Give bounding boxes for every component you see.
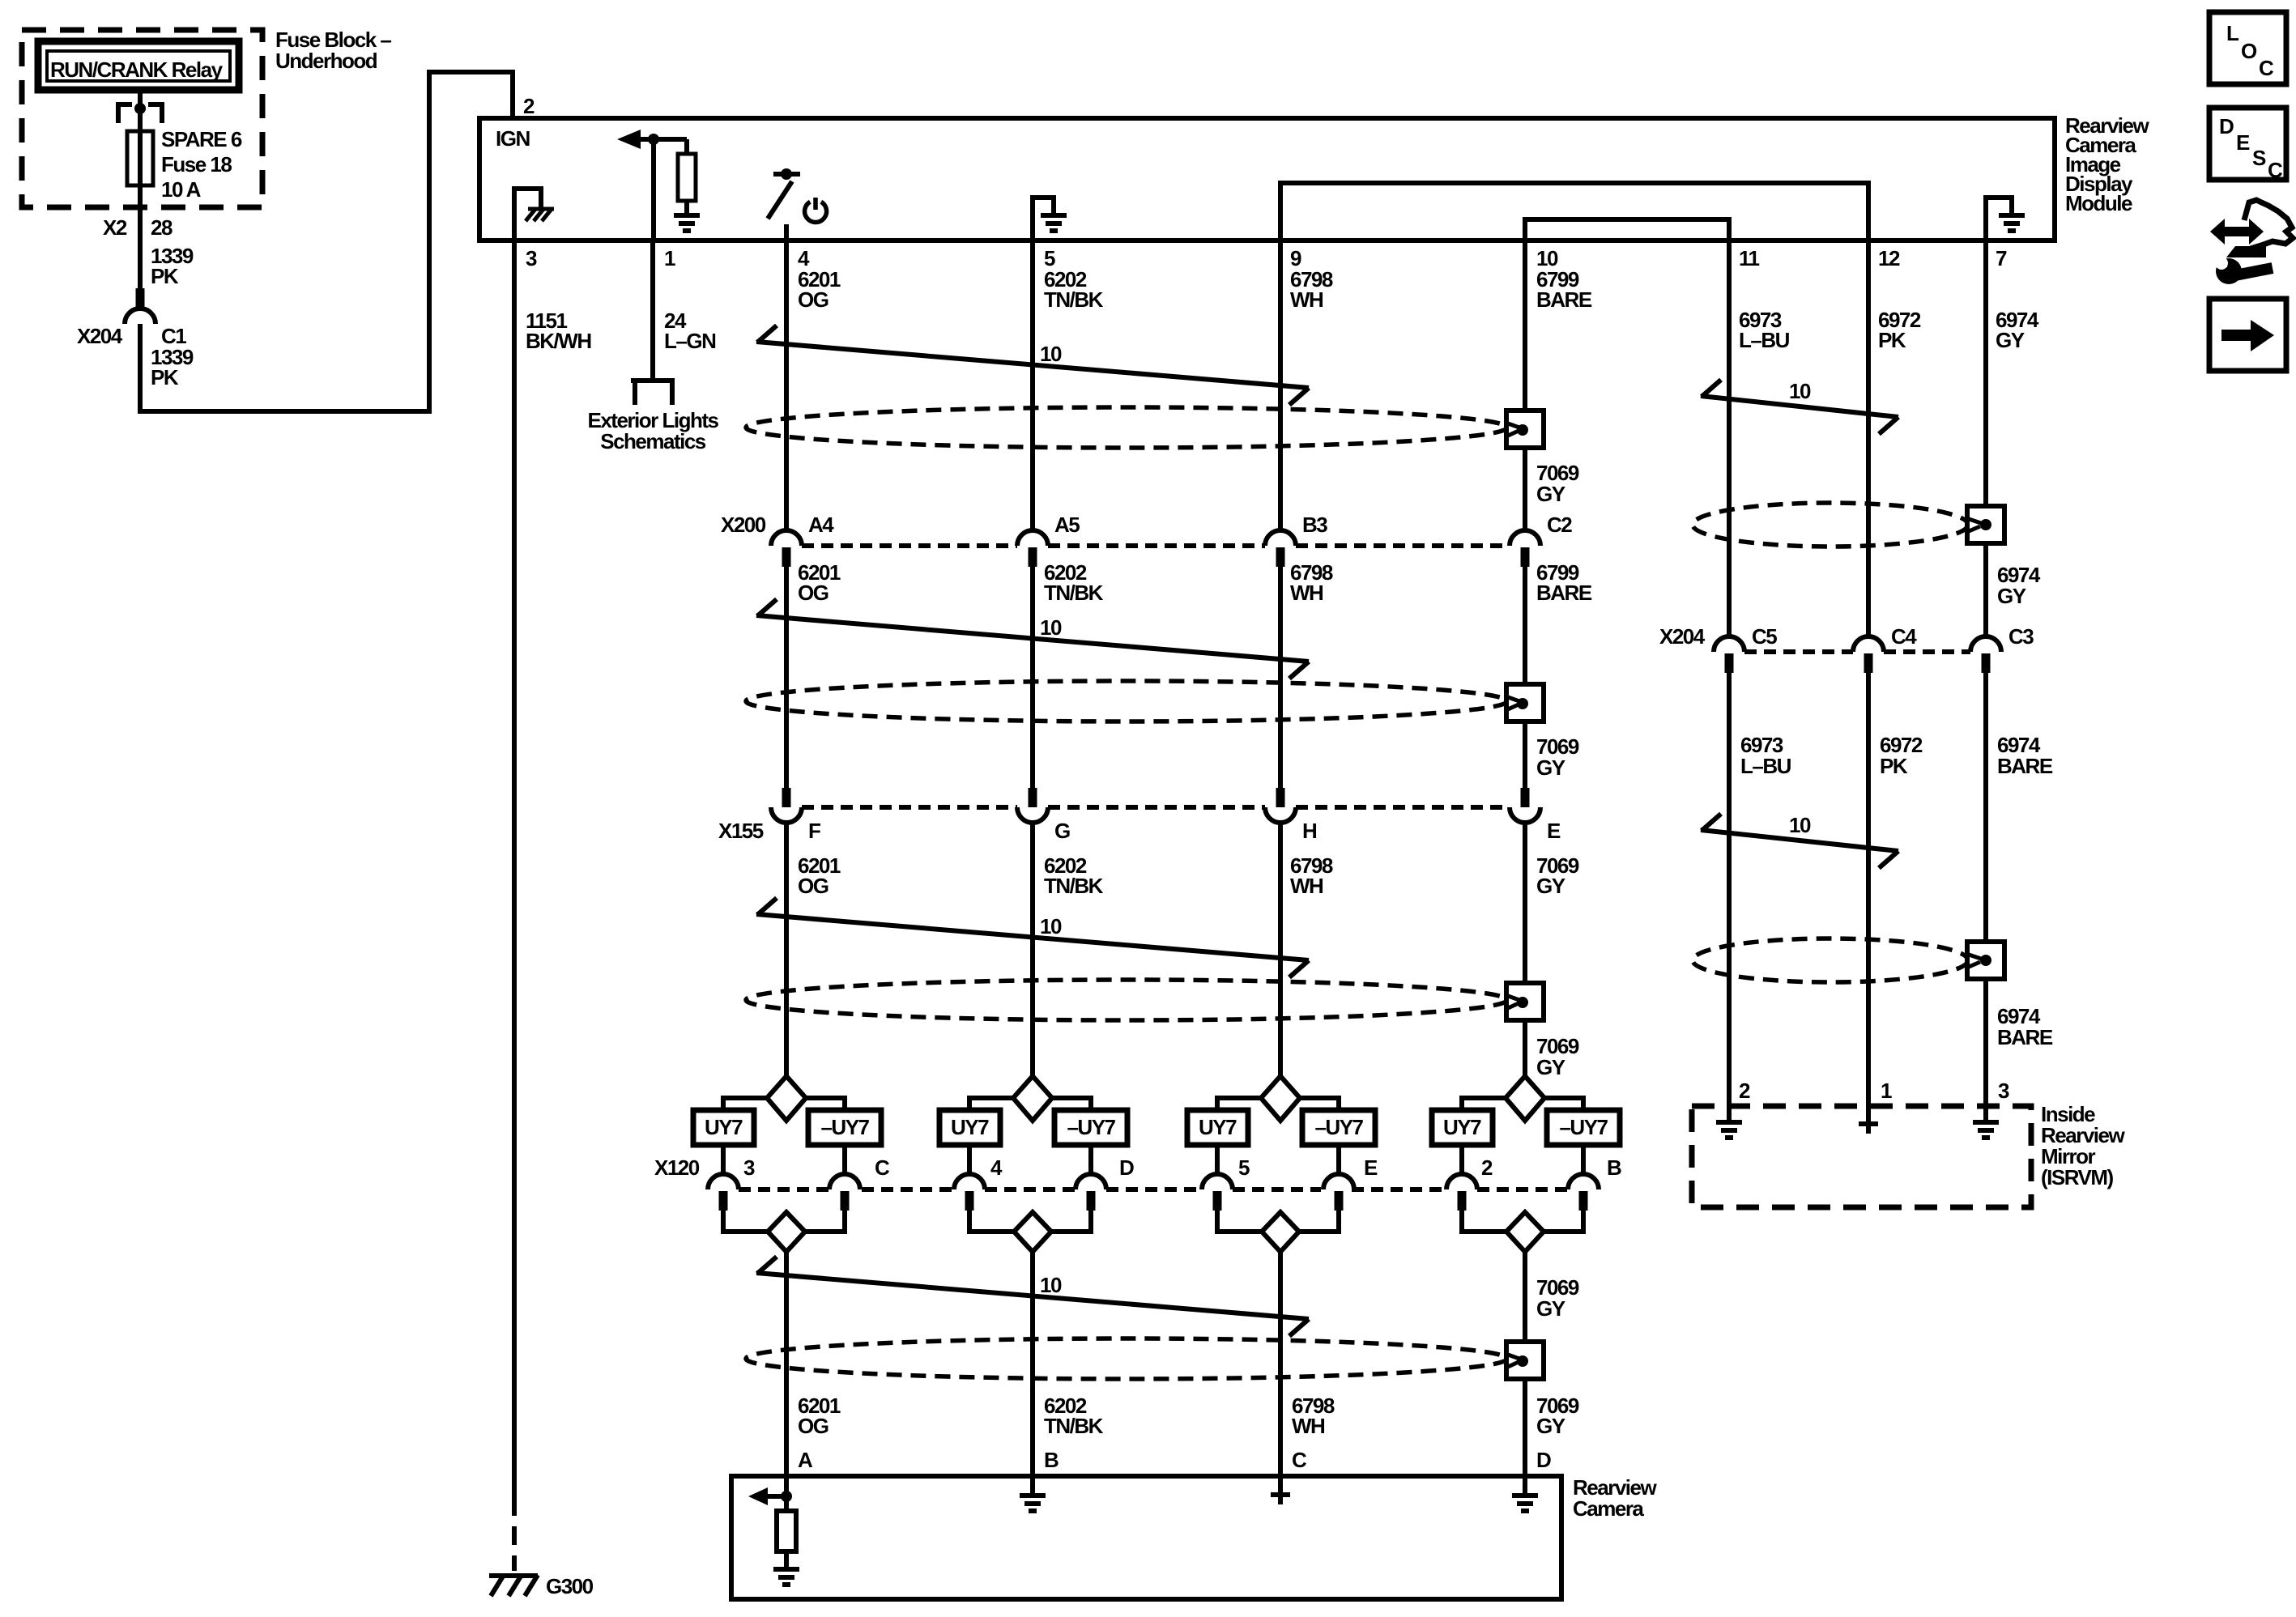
svg-text:GY: GY: [1536, 1055, 1565, 1079]
shield arrow 10 group 1: [756, 342, 1309, 388]
node fuse top junction: [134, 103, 146, 114]
shield splice right on 6974: [1967, 942, 2004, 979]
svg-text:–UY7: –UY7: [820, 1115, 869, 1139]
fuse F18 clip bracket: [118, 104, 132, 123]
fuse block UY7 tag: [1432, 1110, 1493, 1145]
svg-text:A5: A5: [1054, 513, 1080, 537]
svg-text:UY7: UY7: [1443, 1115, 1481, 1139]
fuse block -UY7 tag: [1302, 1110, 1375, 1145]
cable ellipse right: [1693, 503, 1968, 547]
svg-text:OG: OG: [798, 581, 829, 605]
svg-text:2: 2: [523, 94, 535, 118]
wire UY7 to X120: [967, 1145, 972, 1175]
wire UY7 to X120: [721, 1145, 726, 1175]
svg-text:L–BU: L–BU: [1740, 754, 1791, 778]
svg-text:L: L: [2226, 21, 2239, 45]
cable ellipse group 2: [746, 681, 1507, 721]
svg-text:E: E: [1547, 819, 1561, 843]
wire 24 L-GN pin 1 to exterior lights: [650, 240, 655, 381]
internal chassis ground at pin 3: [514, 189, 541, 240]
svg-text:PK: PK: [1878, 328, 1906, 352]
cable ellipse group 4: [746, 1338, 1507, 1379]
svg-text:BARE: BARE: [1536, 581, 1592, 605]
svg-text:GY: GY: [1536, 874, 1565, 898]
wire 6202 TN/BK vertical: [1030, 240, 1035, 531]
svg-text:H: H: [1302, 819, 1317, 843]
svg-text:10: 10: [1040, 1273, 1062, 1297]
wire 6799/7069 shield drain vertical: [1523, 240, 1527, 411]
svg-text:Module: Module: [2065, 191, 2132, 215]
svg-text:X155: X155: [718, 819, 764, 843]
svg-text:2: 2: [1481, 1155, 1493, 1180]
internal signal arrow and junction at pin 1: [617, 130, 641, 149]
svg-text:Schematics: Schematics: [600, 429, 706, 453]
svg-text:11: 11: [1739, 246, 1760, 270]
wire diamond to -UY7: [806, 1098, 845, 1110]
ISRVM internal ground pin 3: [1973, 1120, 1999, 1125]
svg-text:10: 10: [1789, 379, 1811, 403]
connector X155 terminal E: [1521, 788, 1530, 807]
internal resistor at pin 1: [684, 139, 689, 154]
connector X200 terminal C2: [1510, 530, 1540, 546]
icon jump double arrow: [2210, 219, 2264, 245]
wire X120 to merge diamond: [969, 1211, 1014, 1232]
merge diamond below X120: [1262, 1212, 1299, 1252]
svg-text:PK: PK: [1880, 754, 1908, 778]
svg-text:IGN: IGN: [496, 126, 530, 151]
svg-text:BARE: BARE: [1997, 754, 2053, 778]
splice S3 on drain wire: [1506, 983, 1544, 1020]
fuse block UY7 tag: [1187, 1110, 1248, 1145]
connector X155 terminal H: [1276, 788, 1285, 807]
svg-text:C4: C4: [1891, 624, 1917, 649]
svg-text:WH: WH: [1290, 874, 1323, 898]
svg-text:2: 2: [1739, 1079, 1750, 1103]
svg-text:GY: GY: [1997, 584, 2026, 608]
icon wrench: [2216, 258, 2242, 284]
fuse block -UY7 tag: [1547, 1110, 1620, 1145]
connector X120 terminal 3: [708, 1174, 739, 1189]
svg-text:B3: B3: [1302, 513, 1327, 537]
svg-text:E: E: [2236, 130, 2250, 155]
icon jump state outline: [2244, 200, 2293, 249]
svg-text:D: D: [1119, 1155, 1134, 1180]
camera internal resistor: [777, 1511, 796, 1551]
connector X120 terminal B: [1568, 1174, 1599, 1189]
wire 6201 OG vertical: [784, 240, 789, 531]
wire UY7 to X120: [1459, 1145, 1464, 1175]
svg-text:X200: X200: [721, 513, 766, 537]
svg-text:1: 1: [664, 246, 675, 270]
wire X120 to merge diamond: [1217, 1211, 1262, 1232]
fuse block -UY7 tag: [1054, 1110, 1127, 1145]
internal ground below resistor: [674, 213, 700, 218]
svg-text:X204: X204: [1659, 624, 1706, 649]
svg-text:4: 4: [990, 1155, 1003, 1180]
merge diamond below X120: [768, 1212, 805, 1252]
svg-text:G: G: [1054, 819, 1070, 843]
svg-text:3: 3: [1998, 1079, 2009, 1103]
svg-text:1: 1: [1881, 1079, 1892, 1103]
module: Rearview Camera box: [731, 1476, 1561, 1599]
svg-text:X2: X2: [103, 215, 127, 240]
module: Rearview Camera Image Display Module: [479, 118, 2055, 240]
connector X204 terminal C3: [1970, 636, 2001, 652]
svg-text:GY: GY: [1536, 755, 1565, 780]
svg-text:TN/BK: TN/BK: [1044, 1414, 1104, 1438]
camera internal ground below resistor: [773, 1567, 799, 1572]
svg-text:GY: GY: [1536, 1414, 1565, 1438]
wire fuse vertical: [138, 90, 143, 288]
shield arrow 10 group 2: [756, 615, 1309, 662]
internal wire pin 10 to pin 11: [1525, 219, 1729, 240]
connector X120 terminal 2: [1446, 1174, 1477, 1189]
relay RUN/CRANK Relay: [38, 41, 239, 90]
splice pack diamond above X120 at wire x=1275: [1013, 1076, 1052, 1121]
svg-text:E: E: [1364, 1155, 1378, 1180]
fuse block -UY7 tag: [808, 1110, 881, 1145]
svg-text:D: D: [2219, 114, 2234, 138]
svg-text:OG: OG: [798, 874, 829, 898]
svg-text:X120: X120: [654, 1155, 700, 1180]
camera internal supply + at pin C: [1278, 1476, 1283, 1504]
splice pack diamond above X120 at wire x=1581: [1261, 1076, 1300, 1121]
splice S1 on drain wire: [1506, 411, 1544, 448]
merge diamond below X120: [1506, 1212, 1544, 1252]
svg-text:12: 12: [1878, 246, 1900, 270]
ground G300: [489, 1573, 538, 1578]
internal ground at pin 5: [1033, 198, 1054, 240]
svg-text:10: 10: [1040, 615, 1062, 640]
wire 1151 BK/WH pin 3 down to G300: [512, 240, 517, 1497]
svg-text:7: 7: [1996, 246, 2007, 270]
internal power symbol: [805, 202, 827, 222]
wire 6798 WH vertical: [1278, 240, 1283, 531]
connector X200 terminal A4: [771, 530, 802, 546]
fuse block underhood dashed enclosure: [22, 30, 262, 207]
svg-text:O: O: [2241, 39, 2257, 63]
merge diamond below X120: [1014, 1212, 1051, 1252]
wire diamond to UY7: [969, 1098, 1013, 1110]
connector X120 terminal E: [1323, 1174, 1354, 1189]
wire 6974 GY/BARE vertical: [1983, 240, 1988, 506]
wire 6972 PK vertical: [1866, 240, 1871, 636]
svg-text:BK/WH: BK/WH: [526, 329, 591, 353]
connector X120 terminal 4: [954, 1174, 985, 1189]
svg-text:GY: GY: [1536, 482, 1565, 506]
svg-text:SPARE 6: SPARE 6: [161, 127, 242, 151]
svg-text:OG: OG: [798, 287, 829, 312]
svg-text:Underhood: Underhood: [275, 49, 377, 73]
connector X120 terminal 5: [1202, 1174, 1233, 1189]
svg-text:D: D: [1536, 1448, 1551, 1472]
svg-text:BARE: BARE: [1997, 1025, 2053, 1049]
svg-text:X204: X204: [77, 324, 123, 348]
wire 6973 L-BU vertical: [1727, 240, 1732, 636]
svg-text:(ISRVM): (ISRVM): [2041, 1165, 2114, 1189]
shield arrow 10 right group 1: [1701, 396, 1898, 417]
svg-text:PK: PK: [151, 365, 179, 389]
wire X120 to merge diamond: [1462, 1211, 1506, 1232]
svg-text:GY: GY: [1536, 1296, 1565, 1321]
svg-text:UY7: UY7: [705, 1115, 743, 1139]
svg-text:C: C: [1292, 1448, 1307, 1472]
svg-text:10: 10: [1789, 813, 1811, 837]
fuse block UY7 tag: [693, 1110, 754, 1145]
connector X155 terminal F: [782, 788, 791, 807]
connector X204 C1 socket: [125, 309, 155, 324]
wire C1 to module pin 2: [140, 72, 513, 411]
camera internal ground at pin B: [1030, 1476, 1035, 1494]
shield arrow 10 group 3: [756, 914, 1309, 960]
cable ellipse group 3: [746, 980, 1507, 1020]
svg-text:GY: GY: [1996, 328, 2025, 352]
splice S2 on drain wire: [1506, 684, 1544, 721]
splice pack diamond above X120 at wire x=1883: [1506, 1076, 1544, 1121]
svg-text:L–GN: L–GN: [664, 329, 716, 353]
svg-text:S: S: [2252, 146, 2266, 170]
svg-text:G300: G300: [546, 1574, 594, 1598]
svg-text:–UY7: –UY7: [1314, 1115, 1363, 1139]
internal switch at pin 4: [773, 172, 800, 177]
wire diamond to UY7: [723, 1098, 767, 1110]
svg-text:–UY7: –UY7: [1067, 1115, 1115, 1139]
connector X155 terminal G: [1029, 788, 1037, 807]
cable ellipse right: [1693, 938, 1968, 982]
connector X200 terminal A5: [1017, 530, 1048, 546]
svg-text:Camera: Camera: [1573, 1496, 1644, 1521]
fuse block UY7 tag: [939, 1110, 1000, 1145]
svg-text:C2: C2: [1547, 513, 1572, 537]
svg-text:WH: WH: [1290, 287, 1323, 312]
shield splice right on 6974: [1967, 506, 2004, 543]
camera internal ground at pin D: [1523, 1476, 1527, 1494]
icon DESC box: [2209, 108, 2286, 180]
wire UY7 to X120: [1215, 1145, 1220, 1175]
wire diamond to UY7: [1217, 1098, 1261, 1110]
svg-text:5: 5: [1238, 1155, 1250, 1180]
svg-text:WH: WH: [1292, 1414, 1325, 1438]
svg-text:10: 10: [1040, 914, 1062, 938]
splice pack diamond above X120 at wire x=971: [767, 1076, 806, 1121]
svg-text:C3: C3: [2008, 624, 2034, 649]
svg-text:OG: OG: [798, 1414, 829, 1438]
svg-text:C: C: [875, 1155, 890, 1180]
connector X200 terminal B3: [1265, 530, 1296, 546]
wire diamond to -UY7: [1544, 1098, 1583, 1110]
internal wire pin 9 to pin 12: [1280, 183, 1868, 240]
svg-text:C5: C5: [1752, 624, 1777, 649]
ISRVM internal supply + pin 1: [1866, 1114, 1871, 1134]
svg-text:TN/BK: TN/BK: [1044, 287, 1104, 312]
svg-text:PK: PK: [151, 264, 179, 288]
svg-text:3: 3: [526, 246, 537, 270]
cable ellipse group 1: [746, 407, 1507, 448]
ISRVM internal ground pin 2: [1716, 1120, 1742, 1125]
svg-text:TN/BK: TN/BK: [1044, 874, 1104, 898]
svg-text:C: C: [2259, 56, 2274, 80]
svg-text:UY7: UY7: [951, 1115, 989, 1139]
svg-text:–UY7: –UY7: [1559, 1115, 1608, 1139]
off-page bracket Exterior Lights: [631, 378, 675, 383]
svg-text:10 A: 10 A: [161, 177, 202, 202]
svg-text:F: F: [808, 819, 820, 843]
svg-text:BARE: BARE: [1536, 287, 1592, 312]
svg-text:WH: WH: [1290, 581, 1323, 605]
svg-text:28: 28: [151, 215, 173, 240]
svg-text:A: A: [798, 1448, 813, 1472]
wire X120 to merge diamond: [723, 1211, 768, 1232]
wire diamond to -UY7: [1052, 1098, 1091, 1110]
svg-text:UY7: UY7: [1199, 1115, 1237, 1139]
svg-text:Fuse 18: Fuse 18: [161, 152, 232, 177]
connector X120 terminal D: [1076, 1174, 1106, 1189]
module: Inside Rearview Mirror ISRVM dashed box: [1692, 1106, 2031, 1207]
svg-text:10: 10: [1040, 342, 1062, 366]
svg-text:B: B: [1044, 1448, 1059, 1472]
connector X204 C1 pin: [136, 288, 145, 309]
svg-text:C: C: [2268, 158, 2283, 182]
connector X120 terminal C: [829, 1174, 860, 1189]
wire diamond to UY7: [1462, 1098, 1506, 1110]
svg-text:3: 3: [743, 1155, 755, 1180]
svg-text:TN/BK: TN/BK: [1044, 581, 1104, 605]
icon forward arrow box: [2209, 299, 2286, 371]
shield arrow 10 group 4: [756, 1273, 1309, 1319]
connector X204 terminal C4: [1853, 636, 1884, 652]
svg-text:B: B: [1607, 1155, 1621, 1180]
wire diamond to -UY7: [1300, 1098, 1339, 1110]
splice S4 on drain wire: [1506, 1342, 1544, 1379]
shield arrow 10 right group 2: [1701, 830, 1898, 851]
svg-text:A4: A4: [808, 513, 834, 537]
internal ground at pin 7: [1986, 198, 2012, 240]
svg-text:RUN/CRANK Relay: RUN/CRANK Relay: [50, 57, 224, 82]
icon LOC box: [2209, 12, 2286, 84]
connector X204 terminal C5: [1714, 636, 1744, 652]
fuse SPARE 6 Fuse 18 10 A body: [127, 131, 153, 185]
svg-text:L–BU: L–BU: [1739, 328, 1790, 352]
camera internal signal arrow at pin A: [748, 1487, 768, 1505]
